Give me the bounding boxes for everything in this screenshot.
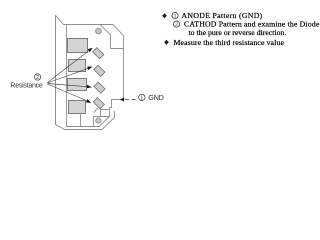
PCB outline (67, 25, 124, 127)
svg-text:to the pure or reverse directi: to the pure or reverse direction. (189, 28, 287, 37)
arrowhead 1 (88, 48, 93, 52)
diamond pad 1 (93, 48, 104, 59)
note line 1 circled 1 (172, 13, 178, 19)
fan line to arrow 2 (48, 67, 91, 83)
arrowhead 2 (87, 67, 92, 70)
arrowhead 4 (86, 99, 91, 103)
outer case bottom edge with chamfer (65, 111, 115, 130)
GND leader arrowhead (120, 98, 124, 102)
svg-text:1: 1 (174, 14, 177, 20)
pad 4 (69, 101, 86, 114)
outer case left edge (55, 15, 57, 124)
svg-text:2: 2 (175, 22, 178, 28)
hole bottom (96, 118, 101, 123)
outer case top edge, right chamfer and right edge down to GND step (64, 25, 124, 108)
fan line to arrow 1 (48, 49, 92, 83)
trace bottom right horizontal (101, 110, 110, 117)
pad 1 (68, 39, 88, 53)
hole top (96, 28, 102, 34)
trace from diamond 4 (94, 108, 98, 113)
label circled 1 GND (139, 94, 145, 100)
fan line to arrow 4 (48, 84, 89, 102)
note line 1 bullet diamond (162, 13, 167, 18)
svg-text:1: 1 (140, 95, 143, 101)
GND leader dashes (125, 99, 137, 101)
svg-text:Resistance: Resistance (10, 82, 42, 89)
note line 2 circled 2 (173, 21, 179, 27)
diamond pad 3 (94, 82, 105, 93)
diamond pad 2 (94, 65, 105, 76)
label circled 2 left (35, 74, 41, 80)
svg-text:GND: GND (148, 93, 163, 102)
arrowhead 3 (87, 85, 92, 89)
svg-text:2: 2 (36, 75, 39, 81)
diamond pad 4 (93, 98, 104, 109)
outer case bottom diagonal (56, 125, 65, 130)
svg-text:Measure the third resistance v: Measure the third resistance value (174, 38, 285, 47)
pad 3 (68, 79, 87, 91)
pad 2 (69, 60, 86, 72)
fan line to arrow 3 (48, 84, 89, 87)
trace from pad4 to board edge (80, 113, 82, 126)
note line 4 bullet diamond (164, 40, 169, 45)
outer case top diagonal (56, 15, 64, 24)
